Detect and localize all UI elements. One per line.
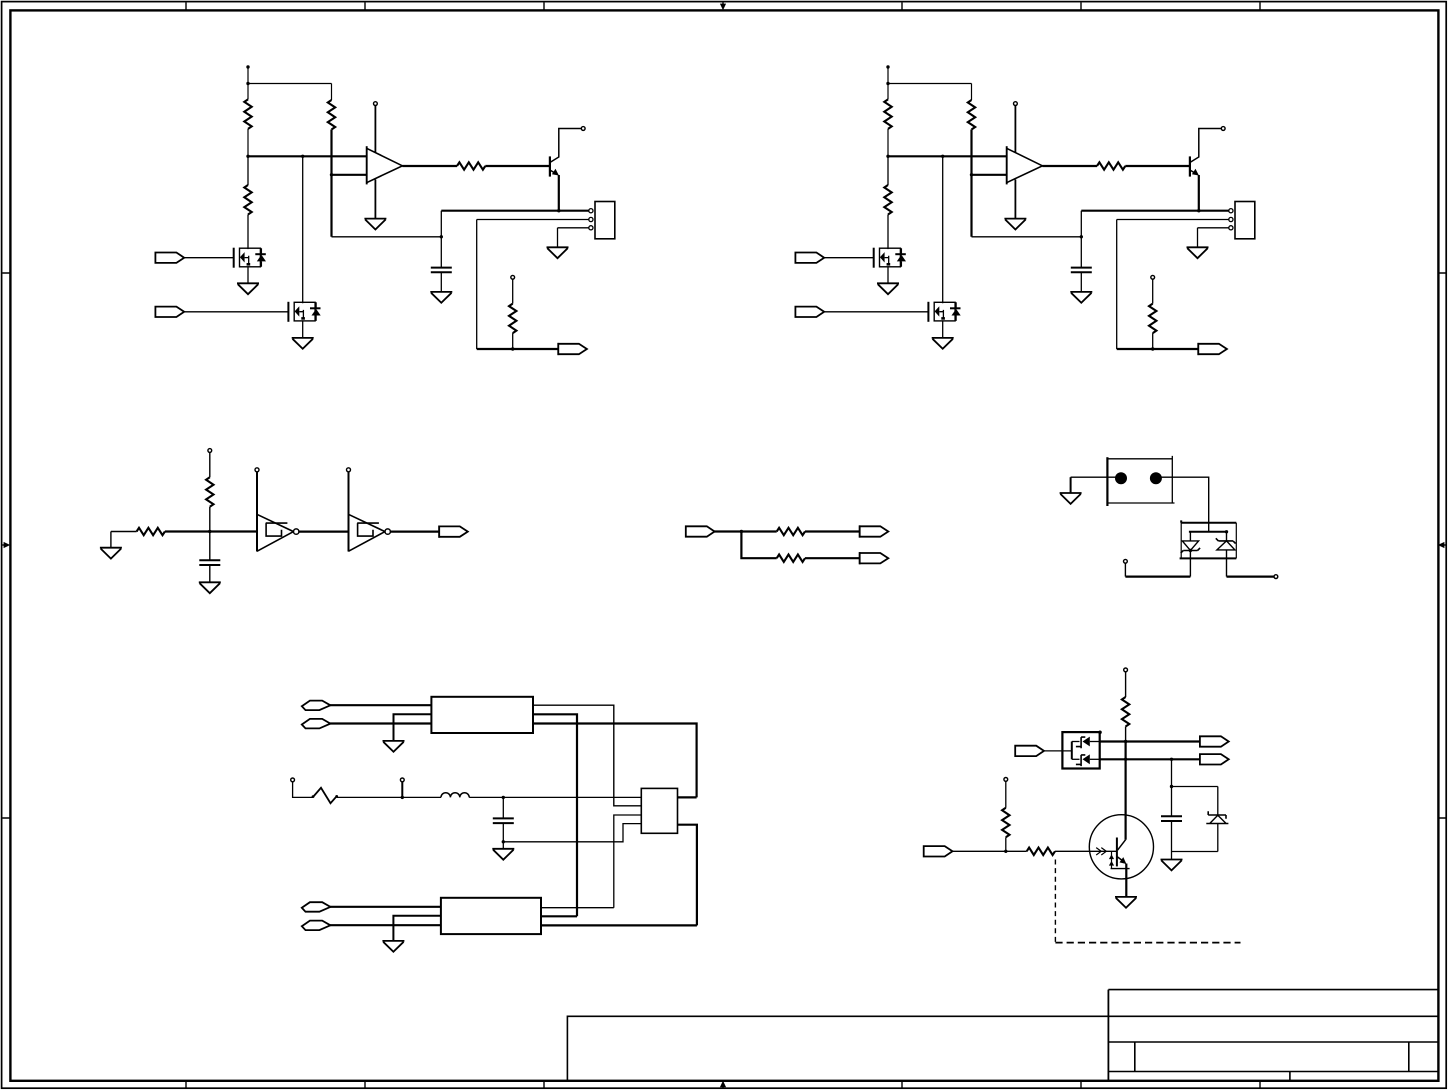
- ground: [237, 266, 259, 294]
- resistor R5: [1149, 275, 1156, 349]
- junction: [1197, 209, 1200, 212]
- ground: [1060, 477, 1082, 504]
- wire: [184, 257, 234, 259]
- dashed boundary: [1054, 860, 1056, 945]
- output port 2: [1200, 754, 1229, 764]
- wire: [1043, 750, 1072, 752]
- pin 3: [1229, 226, 1233, 230]
- junction: [401, 796, 404, 799]
- wire: [337, 796, 441, 798]
- output port: [1198, 343, 1227, 355]
- wire: [1172, 851, 1218, 853]
- wire: [614, 815, 642, 908]
- ground: [1161, 852, 1183, 871]
- ground: [199, 565, 221, 593]
- transistor Q1: [550, 129, 581, 177]
- ground: [100, 532, 122, 559]
- output port: [439, 526, 468, 538]
- wire drain: [302, 156, 304, 303]
- supply pin: [1124, 668, 1128, 697]
- wire connector pin2: [1117, 219, 1229, 221]
- diode D2b: [1072, 754, 1100, 766]
- junction: [1170, 785, 1173, 788]
- wire: [1116, 220, 1118, 350]
- phototransistor Q3: [1089, 815, 1153, 897]
- pin 2: [589, 217, 593, 221]
- transistor M1: [874, 248, 906, 268]
- resistor R2: [328, 84, 335, 130]
- wire: [330, 704, 431, 706]
- wire: [330, 722, 431, 724]
- wire connector pin1: [1081, 210, 1228, 212]
- resistor R10: [1122, 697, 1129, 742]
- wire: [533, 705, 641, 806]
- collector pin: [1221, 127, 1225, 131]
- wire: [678, 796, 697, 798]
- buffer U2B: [347, 468, 391, 552]
- junction: [1124, 758, 1127, 761]
- wire drain: [942, 156, 944, 303]
- wire: [1189, 551, 1191, 577]
- capacitor C1: [431, 268, 452, 273]
- wire out1: [1100, 740, 1200, 742]
- input port drive: [924, 846, 953, 856]
- right pin: [1274, 575, 1278, 579]
- wire collector: [1124, 742, 1126, 840]
- resistor R4: [1097, 162, 1125, 169]
- ground: [547, 228, 569, 258]
- wire: [330, 906, 441, 908]
- wire: [1161, 477, 1208, 532]
- junction: [246, 82, 249, 85]
- output port: [558, 343, 587, 355]
- resistor R5: [509, 275, 516, 349]
- node: [335, 795, 338, 798]
- output port: [860, 552, 889, 564]
- bidirectional port B-: [302, 921, 331, 931]
- ground: [877, 266, 899, 294]
- input port gate2: [155, 307, 184, 317]
- op-amp U1: [364, 102, 402, 230]
- resistor R11: [1002, 778, 1009, 852]
- transistor M2: [928, 302, 960, 322]
- common cathode bar: [1071, 742, 1073, 760]
- output port: [860, 525, 889, 537]
- wire: [805, 557, 860, 559]
- wire: [477, 348, 559, 350]
- junction: [208, 530, 211, 533]
- wire: [247, 67, 249, 84]
- input port gate1: [795, 253, 824, 263]
- wire: [824, 257, 874, 259]
- power node: [886, 65, 889, 68]
- wire: [165, 530, 257, 532]
- pin 1: [589, 209, 593, 213]
- wire inverting input: [332, 174, 367, 176]
- connector J1: [1235, 202, 1255, 239]
- IC U3: [641, 788, 677, 833]
- TVS box D1: [1180, 520, 1237, 558]
- junction: [502, 796, 505, 799]
- wire: [476, 220, 478, 350]
- breaker/switch F1: [313, 788, 337, 803]
- capacitor C3: [493, 797, 514, 841]
- dashed boundary: [1055, 942, 1240, 944]
- output port 1: [1200, 736, 1229, 746]
- wire: [1080, 211, 1082, 268]
- wire: [888, 83, 972, 85]
- resistor R3: [244, 156, 251, 249]
- resistor R4: [457, 162, 485, 169]
- wire: [1171, 759, 1173, 786]
- wire: [332, 236, 442, 238]
- wire: [1055, 850, 1117, 852]
- zener D3: [1206, 787, 1228, 852]
- filter module FL1: [431, 697, 533, 733]
- left pin: [1124, 559, 1128, 576]
- wire: [299, 530, 348, 532]
- bidirectional port B+: [302, 902, 331, 912]
- ground: [430, 272, 452, 303]
- resistor R1: [244, 84, 251, 157]
- junction: [1004, 850, 1007, 853]
- resistor R1: [884, 84, 891, 157]
- wire connector pin1: [441, 210, 588, 212]
- wire emitter: [558, 175, 560, 211]
- junction: [1225, 530, 1228, 533]
- filter module FL2: [441, 898, 541, 934]
- wire noninverting input: [248, 155, 367, 157]
- wire out2: [1100, 758, 1200, 760]
- wire: [887, 67, 889, 84]
- wire: [970, 130, 972, 237]
- node: [312, 795, 315, 798]
- wire: [111, 531, 137, 533]
- wire: [533, 714, 577, 916]
- wire: [1125, 165, 1190, 167]
- opto LED box U4: [1062, 731, 1101, 769]
- ground: [932, 320, 954, 348]
- wire: [184, 311, 288, 313]
- wire: [533, 724, 697, 798]
- transistor M1: [234, 248, 266, 268]
- junction: [246, 155, 249, 158]
- power node: [246, 65, 249, 68]
- wire: [440, 211, 442, 268]
- ground: [292, 320, 314, 348]
- wire: [541, 907, 614, 909]
- input port gate2: [795, 307, 824, 317]
- input port gate1: [155, 253, 184, 263]
- wire: [485, 165, 550, 167]
- wire: [503, 824, 641, 842]
- wire: [1227, 575, 1274, 577]
- zener D1b: [1216, 532, 1236, 550]
- wire: [741, 532, 776, 559]
- op-amp U1: [1004, 102, 1042, 230]
- wire: [1125, 575, 1190, 577]
- inductor L1: [441, 793, 469, 798]
- wire emitter: [1198, 175, 1200, 211]
- bidirectional port A-: [302, 719, 331, 729]
- wire: [391, 530, 440, 532]
- capacitor C2: [199, 532, 220, 566]
- wire: [714, 530, 777, 532]
- wire output: [402, 165, 457, 167]
- diode D2a: [1072, 737, 1100, 749]
- junction: [301, 155, 304, 158]
- input port: [686, 526, 715, 536]
- wire: [805, 530, 860, 532]
- junction: [1170, 758, 1173, 761]
- wire inverting input: [972, 174, 1007, 176]
- capacitor C1: [1071, 268, 1092, 273]
- pin 3: [589, 226, 593, 230]
- junction: [330, 173, 333, 176]
- bidirectional port A+: [302, 701, 331, 711]
- capacitor C4: [1161, 787, 1182, 852]
- wire connector pin3: [558, 227, 589, 229]
- ground: [492, 842, 514, 860]
- wire: [541, 915, 577, 917]
- wire: [1172, 786, 1218, 788]
- tap pin: [400, 778, 404, 797]
- input port: [1015, 746, 1044, 756]
- line input pin: [291, 778, 313, 797]
- resistor R9: [777, 555, 805, 562]
- wire connector pin2: [477, 219, 589, 221]
- wire: [1071, 476, 1116, 478]
- wire: [1226, 550, 1228, 577]
- resistor R3: [884, 156, 891, 249]
- wire ground tap: [394, 714, 432, 741]
- wire common anode bar: [1189, 531, 1227, 533]
- ground: [383, 741, 405, 752]
- pin 2: [1229, 217, 1233, 221]
- collector pin: [581, 127, 585, 131]
- connector J1: [595, 202, 615, 239]
- resistor R12: [1027, 848, 1055, 855]
- buffer U2A: [255, 468, 299, 552]
- wire ground tap: [393, 916, 441, 941]
- ground: [1187, 228, 1209, 258]
- junction: [886, 82, 889, 85]
- junction: [1124, 740, 1127, 743]
- wire: [330, 924, 441, 926]
- ground: [382, 941, 404, 952]
- wire: [469, 796, 641, 798]
- ground: [1070, 272, 1092, 303]
- wire: [678, 825, 697, 926]
- resistor R8: [777, 528, 805, 535]
- wire: [824, 311, 928, 313]
- junction: [502, 840, 505, 843]
- junction: [557, 209, 560, 212]
- junction: [886, 155, 889, 158]
- junction: [1189, 549, 1192, 552]
- junction: [511, 347, 514, 350]
- zener D1a: [1181, 532, 1200, 553]
- junction: [740, 530, 743, 533]
- resistor R6: [137, 528, 165, 535]
- junction: [941, 155, 944, 158]
- wire: [248, 83, 332, 85]
- sensor box with contacts: [1107, 456, 1174, 506]
- wire: [541, 924, 697, 926]
- resistor R2: [968, 84, 975, 130]
- wire connector pin3: [1198, 227, 1229, 229]
- resistor R7 pullup: [206, 449, 213, 532]
- junction: [440, 235, 443, 238]
- wire output: [1042, 165, 1097, 167]
- wire: [972, 236, 1082, 238]
- wire: [330, 130, 332, 237]
- wire noninverting input: [888, 155, 1007, 157]
- transistor Q1: [1190, 129, 1221, 177]
- junction: [970, 173, 973, 176]
- wire: [952, 850, 1027, 852]
- transistor M2: [288, 302, 320, 322]
- pin 1: [1229, 209, 1233, 213]
- junction: [1151, 347, 1154, 350]
- wire: [1117, 348, 1199, 350]
- ground: [1115, 897, 1137, 908]
- junction: [1080, 235, 1083, 238]
